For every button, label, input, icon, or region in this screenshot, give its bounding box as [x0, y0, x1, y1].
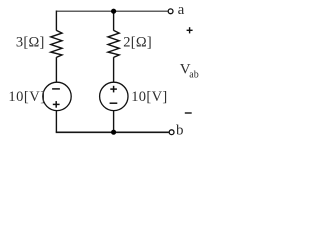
svg-text:ab: ab: [189, 70, 198, 81]
svg-text:b: b: [176, 123, 184, 139]
svg-text:3[Ω]: 3[Ω]: [16, 34, 45, 50]
svg-text:10[V]: 10[V]: [131, 89, 167, 105]
svg-text:10[V]: 10[V]: [8, 89, 45, 105]
svg-text:a: a: [178, 2, 185, 18]
svg-text:2[Ω]: 2[Ω]: [123, 34, 152, 50]
